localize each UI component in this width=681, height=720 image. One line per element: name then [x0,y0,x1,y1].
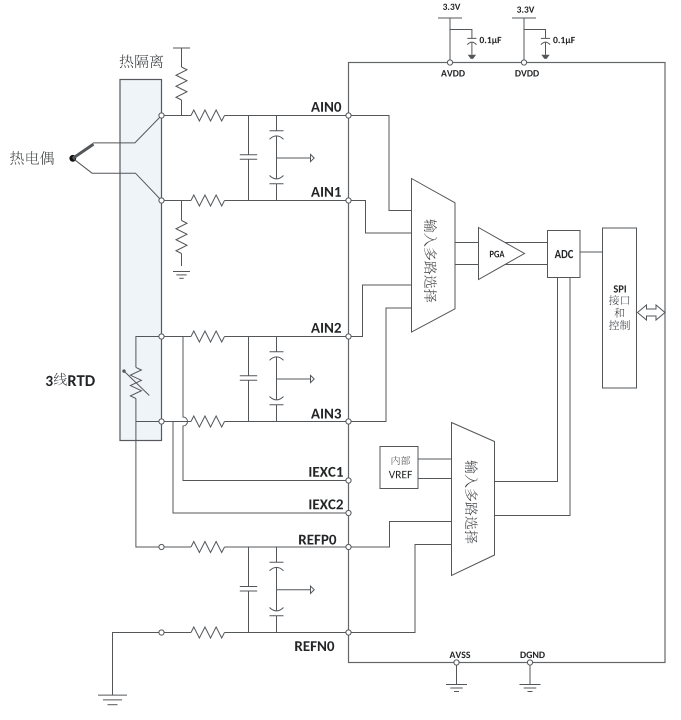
SPI bidirectional arrow [638,305,666,320]
wire IEXC2 external (from AIN3 line) [173,422,349,514]
label 输入多路选择 (U1a) [424,219,437,302]
op-amp PGA [479,228,525,280]
input mux U1a (输入多路选择) [412,179,456,333]
wire AIN2 internal to mux [349,285,412,337]
wire ADC to mux U1b output 1 [495,278,558,482]
capacitor C1 (differential) [240,116,257,201]
capacitor C9 (common-mode bottom) [270,590,284,633]
pin DVDD [515,60,539,77]
wire AIN0 internal to mux [349,116,412,211]
ground at AVSS [446,685,467,692]
ADC chip outline U1 [349,63,666,663]
label 和 [614,308,624,318]
RTD (3-wire) variable resistor [122,337,161,422]
resistor R7 (REFP0 series) [191,542,225,553]
capacitor C4 (differential) [240,337,257,422]
pin REFN0 [295,630,351,651]
wire AIN1 internal to mux [349,201,412,234]
wire RTD bottom to AIN3 node and down to REFP0 [136,422,162,548]
pin REFP0 [299,535,351,550]
node REFP0 [159,544,164,549]
resistor R4 (bias pull-down) [181,201,183,221]
wire REFN0 internal to mux U1b [349,545,452,633]
pin DGND [521,652,545,685]
wire AIN2 external [162,336,349,338]
wire ADC to mux U1b output 2 [495,278,571,516]
wire common-mode tap (REFP0/REFN0) with arrow [277,586,315,593]
bias rail bar above R1 [173,48,190,67]
wire R1 to AIN0 line [181,100,183,116]
node REFN0 [159,630,164,635]
resistor R5 (AIN2 series) [191,331,225,342]
resistor R8 (REFN0 series) [191,627,225,638]
capacitor C3 (common-mode bottom) [270,158,284,201]
capacitor C7 (differential) [240,547,257,633]
capacitor C6 (common-mode bottom) [270,379,284,422]
resistor R6 (AIN3 series) [191,416,225,427]
node AIN0 [159,113,164,118]
ADC block [548,231,581,278]
wire VREF+ to mux U1b [418,458,452,460]
wire AIN0 external [162,115,349,117]
ground (earth) at REFN0 [98,695,127,705]
wire mux U1a output+ to PGA/ADC [455,242,548,244]
capacitor 0.1uF (AVDD) [467,37,501,45]
wire IEXC1 external (from AIN2 line, hops AIN3) [183,337,349,481]
label 接口 [609,295,630,305]
pin AIN1 [311,187,351,203]
wire ADC to SPI [580,251,603,253]
wire AIN1 external [162,200,349,202]
input mux U1b (输入多路选择) [452,423,495,576]
ground at DGND [520,685,541,692]
wire REFN0 to ground [113,633,162,696]
label 输入多路选择 (U1b) [465,460,478,543]
pin AIN0 [311,102,351,118]
thermocouple TC [69,116,161,201]
capacitor C8 (common-mode top) [270,547,284,590]
3.3V supply rail (AVDD) [438,4,462,63]
wire 3.3V to 0.1uF cap (DVDD) [524,30,546,39]
internal VREF block (内部VREF) [380,447,418,489]
pin AIN3 [311,409,351,424]
3.3V supply rail (DVDD) [512,7,536,63]
node AIN1 [159,198,164,203]
wire REFP0 internal to mux U1b [349,522,452,548]
pin IEXC1 [309,467,351,483]
wire AIN3 internal to mux [349,308,412,422]
label 热隔离 [120,54,164,68]
wire 3.3V to 0.1uF cap (AVDD) [450,30,472,39]
pin AVDD [441,60,465,77]
wire REFN0 external [162,632,349,634]
ground (arrow) for 0.1uF cap (AVDD) [468,43,476,59]
wire common-mode tap (AIN0/AIN1) with arrow [277,154,315,161]
node AIN3 [159,419,164,424]
pin AIN2 [311,323,351,339]
wire common-mode tap (AIN2/AIN3) with arrow [277,375,315,382]
ground below R4 [173,272,190,279]
label 3线RTD [46,373,95,386]
capacitor C5 (common-mode top) [270,337,284,380]
capacitor 0.1uF (DVDD) [541,37,575,45]
wire mux U1a output- to PGA/ADC [455,264,548,266]
wire AIN3 external [162,421,349,423]
wire VREF- to mux U1b [418,478,452,480]
resistor R3 (AIN1 series) [191,195,225,206]
pin IEXC2 [309,499,351,515]
node AIN2 [159,334,164,339]
SPI interface block [603,228,637,388]
capacitor C2 (common-mode top) [270,116,284,159]
label 热电偶 [10,151,54,165]
ground (arrow) for 0.1uF cap (DVDD) [541,43,549,59]
thermal isolation barrier [120,80,162,441]
resistor R1 (bias pull-up) [176,67,187,100]
resistor R2 (AIN0 series) [191,110,225,121]
wire REFP0 external [162,546,349,548]
label 控制 [609,320,630,330]
pin AVSS [450,652,471,685]
